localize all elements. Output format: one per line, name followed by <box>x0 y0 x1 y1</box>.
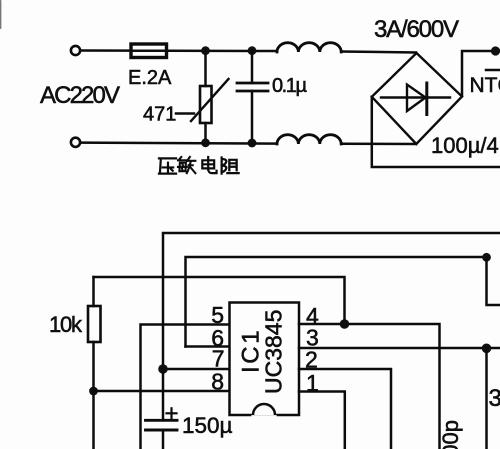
wire bus A (y=233) <box>163 233 500 369</box>
polarity + of C2 <box>167 412 177 414</box>
svg-text:100µ/4: 100µ/4 <box>431 133 499 158</box>
wire pin 1 with drop <box>299 392 345 449</box>
svg-text:471: 471 <box>143 104 176 126</box>
svg-text:150µ: 150µ <box>182 413 233 438</box>
svg-text:AC220V: AC220V <box>40 82 120 109</box>
node: 10k bottom junction <box>89 387 98 396</box>
node: pin 4 junction <box>340 319 350 329</box>
wire pin 2 with drop <box>299 369 391 449</box>
wire top AC line <box>81 49 278 52</box>
wire top to bridge <box>341 52 416 53</box>
capacitor C2 150µ <box>146 419 178 422</box>
varistor RV1 <box>204 51 207 86</box>
wire bridge - output down and right <box>372 97 500 167</box>
scan edge artifact <box>0 1 2 28</box>
wire pin 7 <box>163 368 230 371</box>
bridge diode symbol <box>381 96 450 98</box>
wire bus B (y=257) <box>186 257 487 347</box>
wire bottom to bridge <box>341 143 416 146</box>
wire pin 4 with drop <box>299 324 440 449</box>
wire pin 6 <box>186 345 230 348</box>
wire bus B drop to right edge <box>487 257 500 305</box>
bridge rectifier BR1 <box>372 53 462 144</box>
IC U1 UC3845 body <box>230 303 300 416</box>
wire pin 3 to right edge <box>299 347 500 350</box>
wire bottom AC line <box>81 143 278 144</box>
svg-text:8: 8 <box>211 369 224 395</box>
wire pin 8 <box>94 390 230 393</box>
wire cap 150µ top lead <box>162 369 165 420</box>
IC notch <box>253 404 275 415</box>
node: varistor bottom junction <box>201 138 210 147</box>
wire 10k top branch to pin 4 <box>94 277 345 324</box>
capacitor C1 0.1u <box>251 51 254 83</box>
svg-text:300p: 300p <box>438 420 463 449</box>
label 压敏电阻 char 敏 <box>178 157 195 173</box>
svg-text:NTC: NTC <box>470 74 500 97</box>
node: pin 3 right junction <box>482 344 492 354</box>
svg-text:UC3845: UC3845 <box>261 310 287 394</box>
svg-text:E.2A: E.2A <box>128 67 172 89</box>
svg-text:0.1µ: 0.1µ <box>272 75 307 97</box>
node: pin 7 junction <box>158 364 168 374</box>
node: cap C1 top junction <box>248 46 257 55</box>
inductor L1b (bottom winding) <box>277 135 341 144</box>
svg-text:3A/600V: 3A/600V <box>374 16 459 43</box>
label 压敏电阻 (varistor) char 压 <box>159 158 176 173</box>
terminal T1 (AC live) <box>71 46 80 55</box>
node: varistor top junction <box>201 46 210 55</box>
svg-text:3: 3 <box>489 385 500 412</box>
node: bus B right junction <box>482 253 491 262</box>
resistor R1 10k <box>92 277 95 306</box>
terminal T2 (AC neutral) <box>71 138 80 147</box>
label 压敏电阻 char 电 <box>202 157 216 173</box>
wire NTC overline stub <box>486 69 500 72</box>
svg-text:10k: 10k <box>49 312 83 337</box>
wire pin 5 with drop <box>141 325 230 449</box>
wire bridge + output up and right <box>462 51 500 96</box>
fuse E.2A <box>131 44 167 58</box>
wire pin 3 drop <box>485 348 488 449</box>
label 压敏电阻 char 阻 <box>222 157 239 173</box>
node: cap C1 bottom junction <box>248 139 257 148</box>
inductor L1a (top winding) <box>277 43 341 52</box>
node: output junction top right <box>491 46 500 55</box>
